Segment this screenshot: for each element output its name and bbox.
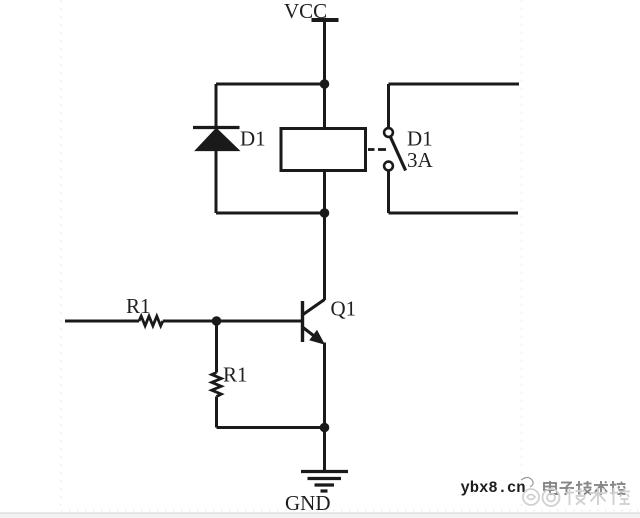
wire relay contact bottom horizontal xyxy=(389,212,519,215)
ghost char 控 xyxy=(610,488,630,505)
transistor Q1 emitter diagonal xyxy=(303,328,320,341)
wire diode branch upper vertical xyxy=(215,84,218,128)
svg-text:ybx8.cn: ybx8.cn xyxy=(461,479,526,497)
transistor Q1 emitter arrowhead xyxy=(311,331,324,343)
char 控 xyxy=(610,481,626,495)
char 电 xyxy=(544,481,557,494)
ghost logo circle 1 xyxy=(523,489,539,505)
svg-text:VCC: VCC xyxy=(284,0,327,23)
wire relay contact top horizontal xyxy=(389,83,520,86)
transistor Q1 base bar xyxy=(301,301,304,342)
relay contact switch arm xyxy=(390,137,405,171)
dashed actuation link from coil to arm xyxy=(368,148,375,151)
char 子 xyxy=(560,483,575,495)
svg-text:D1: D1 xyxy=(407,127,433,151)
ground symbol bar 3 xyxy=(315,483,335,486)
svg-text:R1: R1 xyxy=(126,294,151,318)
node A junction dot xyxy=(320,79,330,89)
faint watermark frame: horizontal dotted line bottom xyxy=(61,510,640,512)
wire node A to relay coil top xyxy=(323,84,326,128)
svg-text:Q1: Q1 xyxy=(331,297,357,321)
ghost watermark (light gray, offset duplicate) xyxy=(523,488,630,506)
ghost logo circle 2 xyxy=(543,489,560,506)
diode D1 triangle (anode, pointing up) xyxy=(195,128,239,150)
svg-text:3A: 3A xyxy=(407,148,434,172)
svg-text:R1: R1 xyxy=(223,363,248,387)
wire node C down to pulldown resistor xyxy=(215,321,218,373)
wire VCC bar down to node A xyxy=(323,20,326,84)
resistor R1 (series base resistor) zigzag xyxy=(139,316,163,326)
wire relay coil bottom to node B xyxy=(323,171,326,213)
wire pulldown resistor to bottom rail xyxy=(215,397,218,428)
ground symbol bar 2 xyxy=(308,477,342,480)
watermark white glow blob xyxy=(513,477,545,499)
node C junction dot xyxy=(212,316,222,326)
ghost char 术 xyxy=(590,488,607,505)
ghost char 技 xyxy=(566,488,586,505)
node D junction dot xyxy=(320,423,330,433)
wire bottom rail to node D xyxy=(217,426,325,429)
faint watermark frame: vertical dotted line right xyxy=(521,0,523,510)
faint watermark frame: vertical dotted line left xyxy=(60,0,62,510)
wire node B down to Q1 collector xyxy=(323,213,326,300)
svg-text:D1: D1 xyxy=(240,127,266,151)
power symbol VCC bar xyxy=(312,18,339,22)
relay contact bottom terminal circle xyxy=(384,162,393,171)
ground symbol bar 1 xyxy=(301,470,348,473)
wire base lead left segment xyxy=(65,320,139,323)
watermark faint curl after cn xyxy=(521,478,533,488)
wire Q1 emitter down through node D to ground xyxy=(323,343,326,472)
wire diode branch lower vertical xyxy=(215,150,218,213)
wire resistor to node C and Q1 base xyxy=(163,320,301,323)
svg-text:GND: GND xyxy=(285,491,331,515)
wire stub to contact top terminal xyxy=(387,84,390,128)
resistor R1 (pulldown) zigzag xyxy=(212,373,222,397)
watermark CJK text 电子技术控 (gray, hand-drawn strokes) xyxy=(544,481,626,495)
char 术 xyxy=(594,481,608,495)
wire diode branch to node B (bottom horizontal) xyxy=(216,212,325,215)
relay contact top terminal circle xyxy=(384,128,393,137)
transistor Q1 collector diagonal xyxy=(303,300,325,315)
page footer strip xyxy=(0,514,640,518)
diode D1 cathode bar xyxy=(193,126,240,129)
relay coil K (rectangle) xyxy=(281,129,366,171)
wire node A to diode branch (top horizontal) xyxy=(216,83,325,86)
char 技 xyxy=(576,481,592,495)
wire stub from contact bottom terminal down xyxy=(387,170,390,213)
ground symbol bar 4 xyxy=(321,489,328,492)
node B junction dot xyxy=(320,208,330,218)
